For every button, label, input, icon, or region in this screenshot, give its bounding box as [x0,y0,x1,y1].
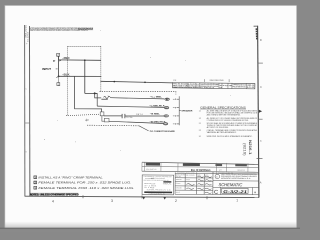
zone tick [82,195,84,198]
dashed shield drop [175,92,177,96]
paper speckles [44,30,231,151]
terminal 1 [165,98,169,100]
dashed enclosure box left [67,46,69,115]
spec item 3 [199,122,258,129]
tick dot 2 [144,82,146,84]
right border tick [257,158,263,160]
revisions strip top line [100,81,172,83]
frame left inner line [29,26,31,196]
spec item 2 [199,117,257,122]
title block cell texts [176,173,209,194]
input bus wire [58,56,60,76]
wire drop to lamp [95,93,102,98]
junction BLK [58,76,60,78]
wire horizontal to node J2 [85,92,97,94]
note flag 2 [57,53,60,59]
fold triangle [142,197,145,200]
notes header [30,193,79,196]
frame bottom line [25,196,259,197]
leader line [139,126,149,131]
right border margin marks [256,28,263,184]
tick dot 1 [114,81,116,83]
left border margin marks [25,24,30,154]
wire BLK [59,75,102,77]
node J2 [94,92,96,94]
frame top-right tick [254,25,258,27]
wire drop 2 [95,93,98,106]
note 1 flag [34,186,37,189]
scanner bed bottom band [0,229,300,232]
title block [175,171,258,196]
connector bars on wire 3 [121,114,123,118]
junction RED drop [84,59,86,61]
terminal 3 [164,115,168,117]
top legend text strip [30,27,94,32]
lamp L1 [101,96,110,99]
dashed enclosure box top [68,45,101,47]
spec item 4 [199,129,258,134]
company logo [215,174,219,178]
wire BLK drop vertical [75,76,102,112]
zone tick [141,196,143,199]
dashed line bottom callout [87,124,139,127]
terminal 4 [163,123,167,125]
BOM top line [142,162,258,164]
title block rows [175,178,258,195]
note 3 flag [34,176,37,179]
note 2 flag [34,181,37,184]
wire 2 to terminal [97,106,164,107]
input arrow RED [53,60,55,62]
dashed enclosure box bottom [66,114,101,116]
revisions table [173,82,256,90]
BOM header dark cells [146,163,160,166]
zone tick [206,196,208,199]
wire RED [59,59,102,61]
spec item 1 [199,109,258,116]
signature scribbles [186,176,211,194]
drawing number box [222,188,248,193]
terminal 2 [164,107,168,109]
stray tick wire 4 [85,119,89,121]
title block top line [175,172,258,175]
wire 4 to terminal [109,121,164,123]
bill of materials table [142,162,258,172]
BOM column dividers [142,162,248,172]
fold triangle [163,197,166,200]
input arrow tick [56,68,58,70]
terminal mating marks [173,99,176,125]
wire vertical from RED [84,60,86,93]
note flag 1 [57,76,60,86]
dashed shield line mid [100,91,177,93]
BOM header line [142,166,258,167]
approval stamp box [142,175,174,196]
narrow row under BOM [175,171,216,173]
spec item 5 [199,135,253,138]
title block outline verticals [175,171,213,194]
frame left outer line [24,25,26,196]
wire 1 to terminal [110,98,164,99]
speaker bracket [177,96,181,125]
resistor RB [104,118,109,122]
paper bottom shadow [5,222,297,229]
revision ticks [203,79,205,82]
dashed enclosure box right [100,46,102,91]
wire link RA-RB [102,116,104,121]
frame right line [258,26,259,198]
crimp terminal mark RED [59,60,61,61]
wire 3 to terminal [104,115,122,117]
resistor RA [100,112,104,116]
paper bottom edge line [0,228,300,230]
